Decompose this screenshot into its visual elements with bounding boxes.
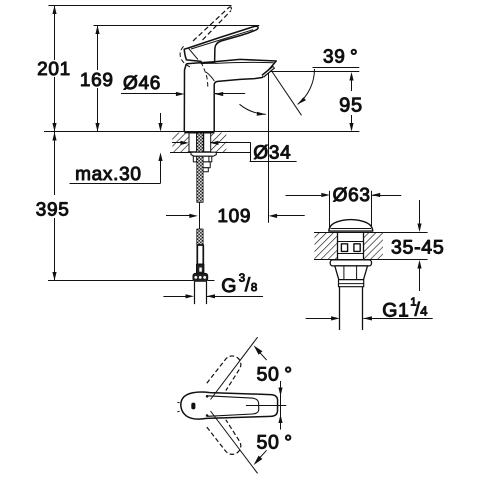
drain countertop hatch right bbox=[364, 233, 383, 259]
wire drain countertop bottom line bbox=[314, 259, 428, 261]
top view handle inner face bbox=[208, 396, 259, 417]
drain overflow windows bbox=[341, 244, 347, 252]
angle 50 leg down bbox=[211, 411, 258, 473]
svg-text:Ø63: Ø63 bbox=[333, 185, 371, 206]
angle 50 lower leader bbox=[259, 450, 267, 459]
faucet mounting nut steps bbox=[193, 156, 196, 162]
faucet hose collar nut bbox=[193, 273, 208, 281]
angle 39 ray (water direction) bbox=[272, 72, 302, 116]
faucet G3/8 pipe bbox=[194, 281, 196, 304]
top view knob slot bbox=[191, 403, 195, 410]
top view vertical tick with arrows bbox=[280, 381, 282, 430]
wire countertop datum line bbox=[44, 131, 359, 133]
lever nose crease bbox=[189, 48, 198, 59]
dimension G3/8 bbox=[163, 296, 186, 298]
wire spout-outlet extension line bbox=[268, 73, 270, 223]
angle 50 leg up bbox=[211, 337, 258, 399]
svg-text:35-45: 35-45 bbox=[391, 237, 444, 259]
svg-text:G: G bbox=[221, 275, 237, 297]
dimension G1 1/4 bbox=[306, 318, 332, 320]
faucet braided hose upper bbox=[197, 156, 203, 202]
faucet base bottom bbox=[184, 131, 214, 133]
angle 39 datum line bbox=[313, 67, 360, 69]
faucet hose thin section bbox=[199, 202, 201, 229]
top view handle outline bbox=[181, 392, 278, 419]
wire hose-end datum line bbox=[48, 280, 193, 282]
dimension O63 bbox=[286, 195, 322, 197]
svg-text:Ø34: Ø34 bbox=[253, 143, 291, 164]
wire countertop bottom line (faucet) bbox=[170, 152, 251, 154]
top view dots bbox=[206, 395, 209, 398]
top view centerline bbox=[246, 405, 286, 407]
svg-text:max.30: max.30 bbox=[75, 164, 142, 185]
dimension 95 bbox=[269, 71, 360, 73]
faucet hose crimp bbox=[197, 264, 204, 273]
lever raised position dashed bbox=[193, 8, 229, 41]
faucet countertop hatch right bbox=[211, 133, 227, 153]
dimension 395 line bbox=[54, 132, 56, 195]
svg-text:Ø46: Ø46 bbox=[123, 73, 161, 94]
dimension max.30 bbox=[160, 113, 162, 125]
svg-text:395: 395 bbox=[36, 200, 70, 221]
drain countertop hatch left bbox=[315, 233, 338, 259]
knob left ticks bbox=[177, 401, 179, 404]
dimension 169 line bbox=[97, 26, 99, 71]
faucet spout inner line bbox=[215, 62, 274, 63]
wire O63 extension lines bbox=[329, 191, 331, 230]
drain flange bbox=[330, 260, 371, 266]
faucet hose ferrule bbox=[197, 245, 203, 264]
svg-text:G1: G1 bbox=[382, 299, 409, 321]
faucet body outline bbox=[184, 59, 276, 132]
svg-text:201: 201 bbox=[37, 59, 71, 80]
angle 39 arc left bbox=[240, 104, 266, 114]
svg-text:169: 169 bbox=[80, 70, 114, 91]
lever handle outline bbox=[184, 26, 258, 63]
svg-text:8: 8 bbox=[251, 282, 258, 294]
drain dome cap bbox=[329, 220, 373, 232]
wire drain countertop top line bbox=[314, 232, 428, 234]
drain hex nut bbox=[335, 266, 368, 280]
svg-text:95: 95 bbox=[339, 95, 363, 117]
lever inner top edge bbox=[191, 30, 253, 49]
svg-text:109: 109 bbox=[217, 206, 251, 227]
faucet threaded stud bbox=[197, 133, 204, 153]
wire top extension line 201 (raised lever height) bbox=[48, 5, 231, 7]
svg-text:50 °: 50 ° bbox=[257, 364, 293, 386]
faucet body-spout seam bbox=[206, 72, 214, 81]
svg-text:50 °: 50 ° bbox=[257, 432, 293, 454]
angle 39 arc right bbox=[298, 69, 315, 104]
drain tailpipe bbox=[339, 287, 341, 330]
angle 50 upper leader bbox=[259, 351, 267, 360]
faucet aerator bbox=[263, 67, 274, 76]
faucet braided hose lower bbox=[197, 229, 203, 245]
svg-text:4: 4 bbox=[420, 304, 428, 319]
top view dashed lever down bbox=[207, 420, 241, 455]
drain washer band bbox=[339, 280, 364, 287]
dimension 201 line bbox=[54, 6, 56, 61]
top view dashed lever up bbox=[207, 356, 241, 391]
faucet countertop hatch left bbox=[172, 133, 189, 153]
svg-text:39 °: 39 ° bbox=[323, 46, 358, 67]
dimension O46 bbox=[121, 93, 177, 95]
drain body through counter bbox=[337, 233, 339, 260]
dimension 35-45 bbox=[419, 200, 421, 225]
dimension 109 bbox=[166, 215, 191, 217]
wire extension line 169 (lever height) bbox=[94, 25, 260, 27]
faucet shank tube walls bbox=[189, 133, 197, 152]
lever swing dashed arc bbox=[180, 46, 191, 67]
faucet mounting washer bbox=[191, 152, 216, 156]
faucet hidden cartridge dashed arc bbox=[201, 62, 208, 88]
dimension O34 bbox=[172, 142, 181, 144]
